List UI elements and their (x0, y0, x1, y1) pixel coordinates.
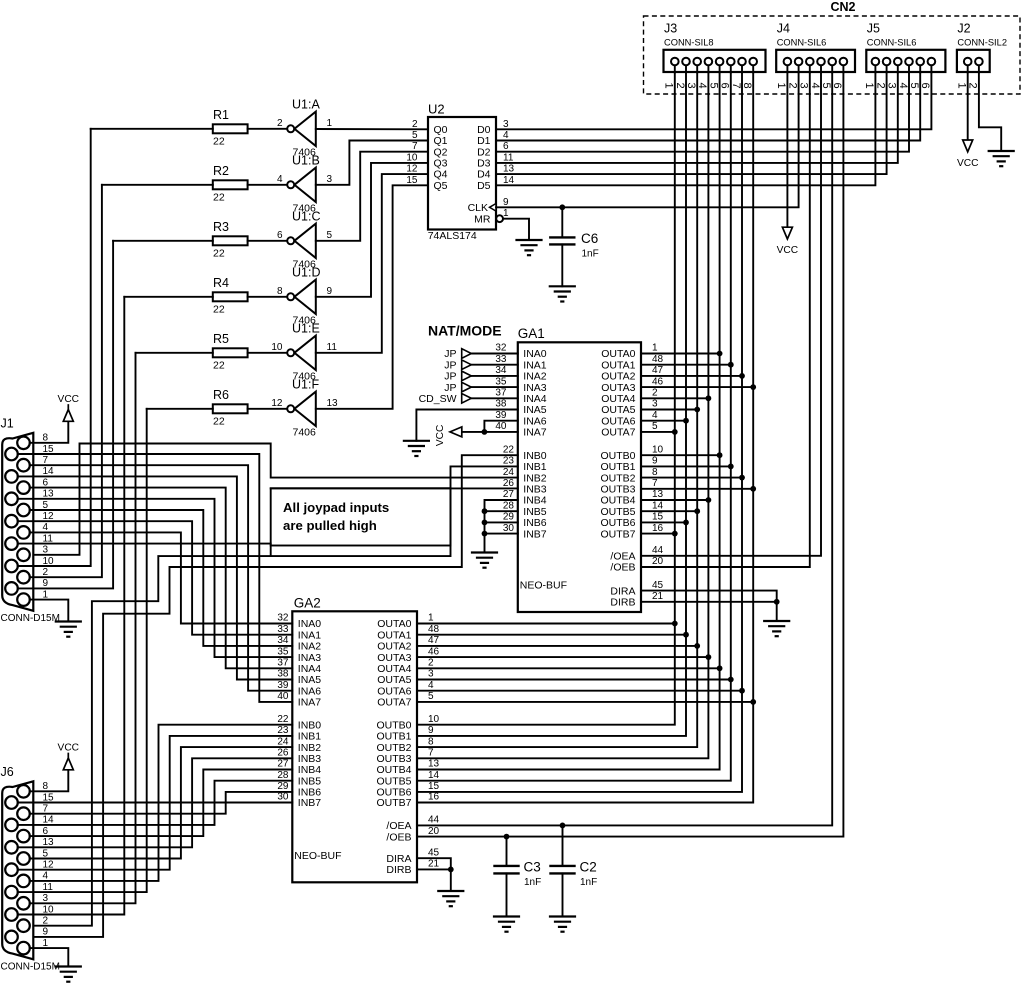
svg-text:INB0: INB0 (523, 450, 547, 462)
svg-text:NEO-BUF: NEO-BUF (294, 850, 341, 862)
capacitor C3 1nF (495, 837, 542, 917)
svg-text:/OEA: /OEA (610, 551, 635, 563)
svg-text:4: 4 (277, 174, 283, 185)
svg-text:29: 29 (503, 512, 515, 523)
resistor R2 22 (102, 164, 287, 203)
svg-text:CONN-SIL6: CONN-SIL6 (867, 38, 917, 48)
svg-text:22: 22 (213, 135, 225, 147)
connector J4 CONN-SIL6 (775, 22, 855, 89)
GA1 INB pin numbers (503, 444, 515, 533)
svg-text:INA3: INA3 (523, 382, 547, 394)
svg-text:45: 45 (652, 580, 664, 591)
svg-text:8: 8 (652, 467, 658, 478)
wire U2 D2 to J5 pin4 (496, 72, 909, 152)
svg-text:10: 10 (652, 444, 664, 455)
wire J6 pin3 to R5 (30, 353, 136, 904)
wire J6 pin11 to R6 (18, 409, 147, 892)
wire U1:D to U2 Q3 (316, 163, 428, 297)
svg-text:OUTA1: OUTA1 (377, 629, 411, 641)
wire GA2 /OEA to J4 pin5 (417, 72, 832, 826)
svg-text:20: 20 (652, 556, 664, 567)
svg-text:U1:A: U1:A (292, 97, 320, 111)
svg-text:35: 35 (495, 376, 507, 387)
svg-text:INB1: INB1 (298, 731, 322, 743)
svg-text:R5: R5 (213, 332, 229, 346)
svg-text:INA6: INA6 (523, 415, 547, 427)
svg-text:OUTA1: OUTA1 (601, 359, 635, 371)
svg-text:JP: JP (444, 348, 456, 360)
capacitor C2 1nF (551, 825, 598, 916)
svg-text:R6: R6 (213, 388, 229, 402)
svg-text:22: 22 (503, 444, 515, 455)
svg-text:1: 1 (652, 343, 658, 354)
wire U2 D3 to J5 pin3 (496, 72, 898, 163)
svg-text:INA5: INA5 (523, 404, 547, 416)
svg-text:VCC: VCC (957, 158, 979, 169)
junction CLK / C6 (559, 204, 565, 210)
svg-text:7: 7 (412, 141, 418, 152)
wires GA2 OUTA0-7 to J3 bus (417, 613, 756, 705)
svg-text:U1:C: U1:C (292, 209, 320, 223)
svg-text:DIRA: DIRA (610, 585, 635, 597)
svg-text:are pulled high: are pulled high (283, 518, 377, 533)
svg-text:OUTB1: OUTB1 (600, 461, 635, 473)
svg-text:3: 3 (428, 669, 434, 680)
wire GA2 DIRA DIRB to ground (417, 847, 454, 891)
svg-text:47: 47 (428, 635, 440, 646)
svg-text:INB0: INB0 (298, 719, 322, 731)
svg-text:27: 27 (277, 759, 289, 770)
wire U2 D5 to J5 pin1 (496, 72, 875, 185)
ground at J1 pin1 (56, 622, 81, 637)
wire U2 D4 to J5 pin2 (496, 72, 887, 174)
connector group CN2 dashed outline (644, 0, 1021, 94)
resistor R1 22 (91, 108, 287, 147)
wire GA1 INB0 route to J6 pin9 (30, 455, 518, 937)
svg-text:2: 2 (277, 118, 283, 129)
ground at GA1 INB4-7 (472, 553, 497, 568)
svg-text:Q3: Q3 (434, 158, 448, 170)
svg-text:U2: U2 (428, 102, 445, 117)
svg-text:44: 44 (652, 545, 664, 556)
power VCC at GA1 INA7 (435, 425, 462, 447)
svg-text:INA5: INA5 (298, 674, 322, 686)
svg-text:INA7: INA7 (298, 697, 322, 709)
svg-text:CONN-SIL2: CONN-SIL2 (957, 38, 1007, 48)
svg-text:13: 13 (327, 398, 339, 409)
svg-text:R2: R2 (213, 164, 229, 178)
wires J6 pins 7,14,6,13,5,12,4 to GA2 INB6..INB0 (18, 725, 293, 881)
svg-text:35: 35 (277, 646, 289, 657)
wire U2 CLK to J4 pin2 (496, 72, 799, 207)
svg-text:INB5: INB5 (523, 506, 547, 518)
wire U2 D0 to J5 pin6 (496, 72, 931, 129)
svg-text:13: 13 (652, 489, 664, 500)
svg-text:D5: D5 (477, 180, 491, 192)
svg-text:OUTA4: OUTA4 (601, 393, 635, 405)
svg-text:12: 12 (406, 164, 418, 175)
svg-text:3: 3 (327, 174, 333, 185)
svg-text:28: 28 (503, 500, 515, 511)
svg-text:1: 1 (327, 118, 333, 129)
svg-text:INA3: INA3 (298, 652, 322, 664)
wire GA1 INA7 to VCC (462, 421, 518, 432)
resistor R6 22 (147, 388, 287, 427)
svg-text:33: 33 (495, 354, 507, 365)
svg-text:DIRB: DIRB (386, 864, 411, 876)
svg-text:All joypad inputs: All joypad inputs (283, 500, 389, 515)
ground at C2 (550, 917, 575, 932)
svg-text:37: 37 (495, 388, 507, 399)
svg-text:INA1: INA1 (298, 629, 322, 641)
svg-text:4: 4 (503, 130, 509, 141)
svg-text:OUTA3: OUTA3 (377, 652, 411, 664)
svg-text:OUTB2: OUTB2 (376, 742, 411, 754)
svg-text:3: 3 (503, 119, 509, 130)
svg-text:39: 39 (495, 410, 507, 421)
svg-text:J5: J5 (867, 22, 880, 36)
bus J3 columns down to GA2 OUTB (417, 72, 753, 803)
wire J6 pin10 to R4 (18, 297, 125, 915)
svg-text:CONN-D15M: CONN-D15M (1, 613, 60, 624)
svg-text:INB4: INB4 (523, 495, 547, 507)
svg-text:11: 11 (503, 152, 514, 163)
svg-text:INA1: INA1 (523, 359, 547, 371)
svg-text:GA2: GA2 (294, 596, 321, 611)
svg-text:14: 14 (503, 175, 515, 186)
svg-text:VCC: VCC (777, 245, 799, 256)
input port JP to GA1 INA0 (444, 343, 518, 361)
svg-text:45: 45 (428, 847, 440, 858)
junction /OEA C2 (560, 823, 566, 829)
svg-text:15: 15 (428, 781, 440, 792)
svg-text:9: 9 (503, 197, 509, 208)
svg-text:OUTB6: OUTB6 (600, 517, 635, 529)
svg-text:1nF: 1nF (524, 877, 541, 888)
wire J6 pin8 to VCC (30, 770, 69, 792)
svg-text:INA7: INA7 (523, 427, 547, 439)
svg-text:C2: C2 (580, 860, 597, 875)
svg-text:22: 22 (213, 359, 225, 371)
connector J5 CONN-SIL6 (863, 22, 945, 89)
svg-text:R3: R3 (213, 220, 229, 234)
ground at GA1 INA5 (404, 441, 429, 456)
svg-text:INB4: INB4 (298, 764, 322, 776)
svg-text:2: 2 (652, 388, 658, 399)
wire GA1 DIRA DIRB to ground (641, 580, 780, 621)
svg-text:JP: JP (444, 371, 456, 383)
svg-text:34: 34 (277, 635, 289, 646)
svg-text:10: 10 (428, 714, 440, 725)
svg-text:INA0: INA0 (523, 348, 547, 360)
svg-text:INB1: INB1 (523, 461, 547, 473)
svg-text:OUTB5: OUTB5 (376, 775, 411, 787)
svg-text:JP: JP (444, 382, 456, 394)
svg-text:DIRB: DIRB (610, 597, 635, 609)
inverter U1:E 7406 (271, 321, 337, 382)
svg-text:16: 16 (652, 523, 664, 534)
inverter U1:B 7406 (277, 153, 333, 214)
svg-text:CLK: CLK (468, 202, 488, 214)
svg-text:48: 48 (428, 624, 440, 635)
svg-text:C3: C3 (524, 860, 541, 875)
input port CD_SW to GA1 INA4 (419, 388, 518, 406)
svg-text:1: 1 (663, 83, 675, 89)
svg-text:OUTB0: OUTB0 (376, 719, 411, 731)
svg-text:26: 26 (277, 748, 289, 759)
J6 pin number labels (43, 781, 55, 949)
svg-text:OUTA5: OUTA5 (377, 674, 411, 686)
svg-text:/OEB: /OEB (610, 562, 635, 574)
svg-text:34: 34 (495, 365, 507, 376)
svg-text:INB2: INB2 (298, 742, 322, 754)
svg-text:R4: R4 (213, 276, 229, 290)
svg-text:VCC: VCC (435, 425, 446, 447)
wire GA1 INB1 route to J6 pin2 (18, 466, 518, 925)
svg-text:24: 24 (277, 736, 289, 747)
svg-text:INA4: INA4 (298, 663, 322, 675)
svg-text:8: 8 (428, 736, 434, 747)
input port JP to GA1 INA1 (444, 354, 518, 372)
svg-text:JP: JP (444, 359, 456, 371)
connector J6 CONN-D15M (1, 765, 34, 960)
svg-text:2: 2 (412, 119, 418, 130)
svg-text:21: 21 (428, 859, 440, 870)
svg-text:2: 2 (428, 658, 434, 669)
label J1 CONN-D15M (1, 613, 60, 624)
wire GA1 INA5 to ground (416, 399, 517, 441)
svg-text:1nF: 1nF (580, 877, 597, 888)
svg-text:12: 12 (271, 398, 283, 409)
wire J2 pin2 to ground (979, 72, 1001, 151)
wire GA1 INB3 (271, 487, 518, 489)
svg-text:40: 40 (277, 691, 289, 702)
svg-text:INA2: INA2 (523, 371, 547, 383)
svg-text:INB6: INB6 (523, 517, 547, 529)
svg-text:OUTB4: OUTB4 (600, 495, 635, 507)
svg-text:22: 22 (277, 714, 289, 725)
svg-text:OUTA4: OUTA4 (377, 663, 411, 675)
svg-text:23: 23 (277, 725, 289, 736)
svg-text:14: 14 (428, 770, 440, 781)
svg-text:9: 9 (652, 456, 658, 467)
wire J2 pin1 to VCC (967, 72, 969, 140)
wire J1 pin1 to ground (30, 600, 69, 622)
svg-text:9: 9 (428, 725, 434, 736)
svg-text:INA2: INA2 (298, 641, 322, 653)
svg-text:9: 9 (327, 286, 333, 297)
svg-text:46: 46 (428, 646, 440, 657)
svg-text:32: 32 (495, 343, 507, 354)
svg-text:DIRA: DIRA (386, 853, 411, 865)
svg-text:47: 47 (652, 365, 664, 376)
svg-text:2: 2 (43, 916, 49, 927)
svg-text:CD_SW: CD_SW (419, 393, 457, 405)
svg-text:OUTA0: OUTA0 (377, 618, 411, 630)
capacitor C6 1nF (550, 207, 598, 286)
svg-text:1: 1 (775, 83, 787, 89)
svg-text:29: 29 (277, 781, 289, 792)
svg-text:5: 5 (327, 230, 333, 241)
svg-text:1: 1 (956, 83, 968, 89)
svg-text:CONN-D15M: CONN-D15M (1, 961, 60, 972)
svg-text:22: 22 (213, 415, 225, 427)
wire U1:E to U2 Q4 (316, 174, 428, 353)
resistor R5 22 (136, 332, 288, 371)
svg-text:OUTA2: OUTA2 (377, 641, 411, 653)
note box: all joypad inputs are pulled high (271, 488, 451, 545)
ground at C6 (550, 286, 575, 301)
wire GA1 INA6 (484, 410, 517, 432)
svg-text:INB7: INB7 (523, 528, 547, 540)
wire U1:F to U2 Q5 (316, 185, 428, 408)
svg-text:OUTB0: OUTB0 (600, 450, 635, 462)
wire J4 pin1 to VCC (786, 72, 788, 227)
svg-text:20: 20 (428, 826, 440, 837)
svg-text:U1:E: U1:E (292, 321, 320, 335)
svg-text:16: 16 (428, 792, 440, 803)
svg-text:CN2: CN2 (830, 0, 855, 14)
svg-text:1: 1 (428, 613, 434, 624)
resistor R4 22 (124, 276, 287, 315)
svg-text:J3: J3 (664, 22, 677, 36)
wire J1 pin9 to R3 (18, 241, 113, 589)
svg-text:Q0: Q0 (434, 124, 448, 136)
svg-text:MR: MR (474, 213, 491, 225)
svg-text:32: 32 (277, 613, 289, 624)
svg-text:11: 11 (327, 342, 338, 353)
svg-text:OUTA7: OUTA7 (601, 427, 635, 439)
svg-text:VCC: VCC (58, 743, 80, 754)
svg-text:37: 37 (277, 658, 289, 669)
svg-text:3: 3 (43, 545, 49, 556)
svg-text:R1: R1 (213, 108, 229, 122)
svg-text:38: 38 (277, 669, 289, 680)
svg-text:15: 15 (406, 175, 418, 186)
svg-text:INB7: INB7 (298, 797, 322, 809)
svg-text:D2: D2 (477, 146, 491, 158)
svg-text:30: 30 (277, 792, 289, 803)
wire J1 pin11 joins INB1 route (18, 544, 271, 557)
svg-text:/OEB: /OEB (386, 831, 411, 843)
IC GA1 NEO-BUF (518, 326, 641, 612)
svg-text:22: 22 (213, 247, 225, 259)
wire U2 D1 to J5 pin5 (496, 72, 920, 141)
wire J6 pin1 to ground (30, 948, 69, 966)
svg-text:J6: J6 (1, 765, 14, 779)
svg-text:U1:F: U1:F (292, 377, 319, 391)
ground at U2 MR (517, 240, 542, 255)
wire GA1 /OEA to J4 pin4 (641, 72, 821, 556)
label J6 CONN-D15M (1, 961, 60, 972)
resistor R3 22 (113, 220, 287, 259)
svg-text:INB3: INB3 (298, 753, 322, 765)
svg-text:Q2: Q2 (434, 146, 448, 158)
svg-text:5: 5 (412, 130, 418, 141)
svg-text:OUTB5: OUTB5 (600, 506, 635, 518)
wire J6 pin15 to GA2 INB7 (18, 802, 293, 804)
svg-text:Q5: Q5 (434, 180, 448, 192)
svg-text:OUTB3: OUTB3 (376, 753, 411, 765)
svg-text:GA1: GA1 (518, 326, 545, 341)
svg-text:OUTB1: OUTB1 (376, 731, 411, 743)
svg-text:44: 44 (428, 815, 440, 826)
ground at J6 pin1 (56, 967, 81, 982)
connector J3 CONN-SIL8 (663, 22, 766, 89)
svg-text:30: 30 (503, 523, 515, 534)
J1 pin number labels (43, 433, 55, 601)
svg-text:8: 8 (277, 286, 283, 297)
svg-text:OUTA6: OUTA6 (377, 685, 411, 697)
svg-text:INA0: INA0 (298, 618, 322, 630)
svg-text:40: 40 (495, 421, 507, 432)
svg-text:24: 24 (503, 467, 515, 478)
ground at GA1 DIR (764, 621, 789, 636)
input port JP to GA1 INA3 (444, 376, 518, 394)
svg-text:OUTA6: OUTA6 (601, 415, 635, 427)
svg-text:J2: J2 (957, 22, 970, 36)
svg-text:J4: J4 (777, 22, 790, 36)
wire GA1 INB4-INB7 to ground (482, 500, 518, 553)
svg-text:1: 1 (503, 208, 509, 219)
svg-text:23: 23 (503, 456, 515, 467)
svg-text:OUTA2: OUTA2 (601, 371, 635, 383)
svg-text:7: 7 (652, 478, 658, 489)
inverter U1:A 7406 (277, 97, 333, 158)
svg-text:48: 48 (652, 354, 664, 365)
svg-text:OUTA0: OUTA0 (601, 348, 635, 360)
svg-text:OUTB4: OUTB4 (376, 764, 411, 776)
svg-text:1nF: 1nF (582, 249, 599, 260)
svg-text:7406: 7406 (293, 427, 317, 439)
svg-text:10: 10 (271, 342, 283, 353)
ground at C3 (494, 917, 519, 932)
svg-text:38: 38 (495, 399, 507, 410)
svg-text:OUTB7: OUTB7 (376, 797, 411, 809)
svg-text:15: 15 (652, 512, 664, 523)
power VCC at J2 (957, 140, 979, 169)
svg-text:5: 5 (652, 421, 658, 432)
pin U2 MR bubble and wire to ground (496, 215, 529, 240)
svg-text:CONN-SIL8: CONN-SIL8 (664, 38, 714, 48)
svg-text:22: 22 (213, 191, 225, 203)
svg-text:U1:D: U1:D (292, 265, 320, 279)
IC U2 74ALS174 (406, 102, 514, 243)
svg-text:13: 13 (503, 164, 515, 175)
wire U1:C to U2 Q2 (316, 152, 428, 241)
svg-text:D3: D3 (477, 158, 491, 170)
svg-text:4: 4 (652, 410, 658, 421)
svg-text:33: 33 (277, 624, 289, 635)
connector J2 CONN-SIL2 (956, 22, 1008, 89)
svg-text:7: 7 (428, 748, 434, 759)
svg-text:OUTB7: OUTB7 (600, 528, 635, 540)
wire GA1 INB2 route to J1 pin3 (30, 444, 518, 555)
svg-text:3: 3 (652, 399, 658, 410)
svg-text:VCC: VCC (58, 394, 80, 405)
svg-text:28: 28 (277, 770, 289, 781)
inverter U1:F 7406 (271, 377, 338, 438)
wire U1:B to U2 Q1 (316, 141, 428, 185)
wire GA1 /OEB to J4 pin3 (641, 72, 810, 567)
power VCC at J1 (58, 394, 80, 421)
svg-text:OUTB2: OUTB2 (600, 472, 635, 484)
svg-text:21: 21 (652, 591, 664, 602)
svg-text:6: 6 (277, 230, 283, 241)
wires J1 pins 15,7,14,6,13,5,12,4 to GA2 INA7..INA0 (18, 454, 293, 702)
svg-text:26: 26 (503, 478, 515, 489)
svg-text:9: 9 (43, 927, 49, 938)
